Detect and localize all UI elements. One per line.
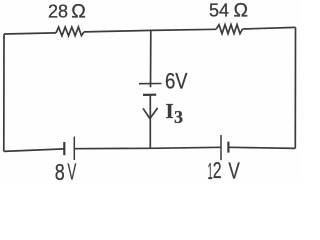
wire top-left segment — [4, 33, 56, 34]
svg-text:2: 2 — [213, 157, 222, 181]
wire middle branch lower — [149, 95, 151, 148]
current arrow I3 head — [143, 108, 158, 119]
svg-text:I: I — [166, 99, 174, 123]
svg-text:V: V — [175, 69, 187, 94]
wire left side — [3, 34, 5, 151]
wire bottom toward 12V battery — [150, 147, 221, 148]
svg-text:28: 28 — [48, 2, 68, 22]
wire bottom-middle segment — [74, 147, 150, 149]
wire top-middle segment — [84, 30, 151, 32]
resistor R1 28Ω zigzag — [56, 27, 84, 36]
battery B2 6V short plate — [143, 94, 156, 96]
svg-text:Ω: Ω — [71, 1, 86, 23]
svg-text:54: 54 — [209, 1, 229, 21]
wire to top-right corner — [243, 27, 296, 29]
wire right side — [294, 27, 296, 148]
svg-text:6: 6 — [165, 69, 175, 94]
svg-text:V: V — [228, 158, 240, 181]
wire bottom-left segment — [4, 149, 65, 152]
battery B3 12V short plate — [227, 142, 229, 153]
battery B1 8V long plate — [73, 137, 75, 160]
svg-text:V: V — [68, 159, 77, 181]
svg-text:8: 8 — [55, 159, 65, 181]
battery B1 8V short plate — [63, 142, 65, 155]
battery B3 12V long plate — [220, 135, 222, 160]
svg-text:Ω: Ω — [234, 0, 249, 22]
battery B2 6V long plate — [139, 83, 162, 85]
wire middle branch upper — [150, 30, 152, 87]
wire top-right inner segment — [151, 29, 216, 30]
resistor R2 54Ω zigzag — [216, 25, 243, 34]
svg-text:3: 3 — [174, 107, 183, 127]
wire bottom-right segment — [228, 147, 295, 148]
